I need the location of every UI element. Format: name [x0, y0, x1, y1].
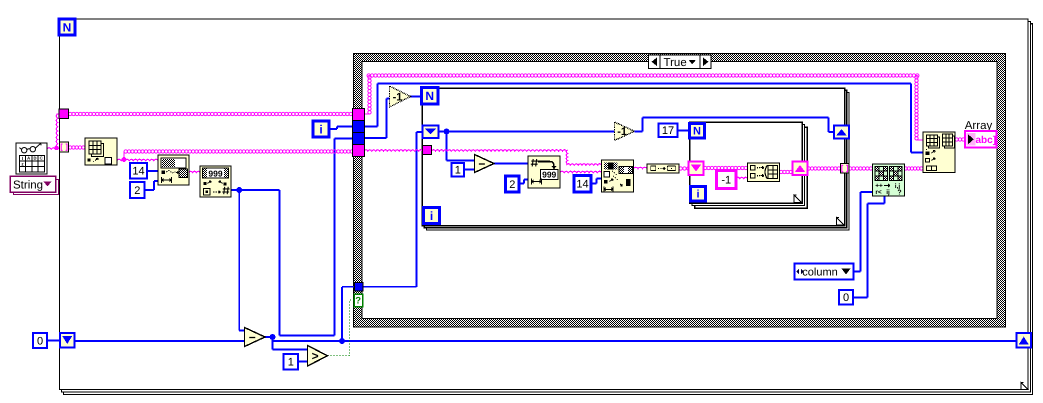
svg-text:999: 999	[542, 170, 556, 180]
svg-text:2: 2	[509, 179, 515, 191]
svg-text:r<: r<	[875, 189, 882, 196]
svg-text:>: >	[312, 349, 319, 363]
svg-text:?: ?	[897, 190, 901, 197]
svg-text:−: −	[249, 330, 256, 344]
svg-text:i: i	[319, 122, 322, 136]
svg-text:D: D	[33, 156, 36, 161]
svg-text:abc]: abc]	[976, 135, 997, 146]
svg-text:999: 999	[208, 169, 222, 179]
svg-text:A: A	[27, 156, 30, 161]
svg-text:−: −	[478, 157, 485, 171]
svg-text:14: 14	[132, 166, 144, 178]
svg-text:i: i	[696, 189, 699, 201]
svg-text:i: i	[430, 209, 433, 223]
svg-text:ij: ij	[886, 189, 890, 196]
svg-text:N: N	[63, 20, 72, 34]
svg-text:1: 1	[455, 165, 461, 177]
svg-text:C: C	[40, 156, 43, 161]
svg-text:17: 17	[662, 125, 674, 137]
svg-text:-1: -1	[721, 174, 731, 186]
svg-text:True: True	[664, 57, 687, 69]
svg-text:?: ?	[355, 296, 361, 307]
svg-text:1: 1	[288, 357, 294, 369]
svg-text:I: I	[22, 156, 23, 161]
svg-text:N: N	[425, 89, 434, 103]
svg-text:-1: -1	[393, 91, 403, 103]
svg-text:2: 2	[134, 185, 140, 197]
svg-text:-1: -1	[617, 126, 627, 138]
svg-text:14: 14	[576, 179, 588, 191]
svg-text:String: String	[13, 180, 43, 192]
svg-text:N: N	[693, 126, 701, 138]
svg-text:0: 0	[37, 335, 43, 347]
svg-text:column: column	[802, 267, 837, 279]
svg-text:0: 0	[843, 292, 849, 304]
